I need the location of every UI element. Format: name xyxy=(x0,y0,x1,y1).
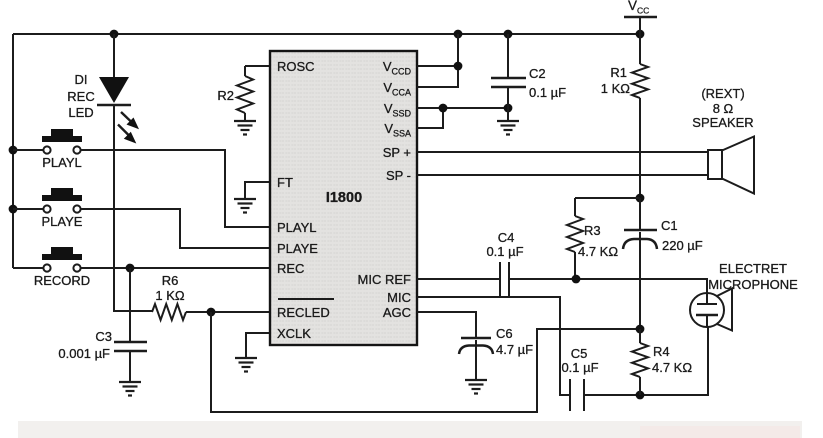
ground R2 xyxy=(234,121,256,135)
speaker SPK1 xyxy=(708,137,754,194)
svg-text:REC: REC xyxy=(67,89,94,104)
resistor R3 xyxy=(567,198,583,279)
node junction VCCD/VCCA xyxy=(454,62,463,71)
svg-text:4.7 KΩ: 4.7 KΩ xyxy=(652,360,692,375)
svg-text:FT: FT xyxy=(277,175,293,190)
svg-text:RECLED: RECLED xyxy=(277,305,330,320)
node junction VSSA/VSSD xyxy=(439,104,448,113)
resistor R6 xyxy=(152,304,186,320)
ground FT xyxy=(234,199,256,213)
resistor R4 xyxy=(632,329,648,395)
svg-text:(REXT): (REXT) xyxy=(701,86,744,101)
node junction top-rail Vcc xyxy=(636,30,645,39)
svg-text:PLAYL: PLAYL xyxy=(42,155,82,170)
svg-text:AGC: AGC xyxy=(383,305,411,320)
switch PLAYE xyxy=(13,188,82,213)
capacitor C5 xyxy=(570,379,584,411)
svg-text:8 Ω: 8 Ω xyxy=(713,101,734,116)
ground C6 xyxy=(465,380,487,394)
svg-text:1 KΩ: 1 KΩ xyxy=(601,81,631,96)
svg-text:SP +: SP + xyxy=(383,145,411,160)
wire top rail xyxy=(13,33,640,35)
svg-text:ELECTRET: ELECTRET xyxy=(719,261,787,276)
LED emission arrow 2 xyxy=(118,125,136,144)
svg-text:SP -: SP - xyxy=(386,168,411,183)
wire XCLK to ground xyxy=(246,333,270,358)
wire PLAYE to pin xyxy=(81,209,270,248)
svg-text:0.1 µF: 0.1 µF xyxy=(486,244,523,259)
svg-text:R1: R1 xyxy=(610,65,627,80)
bottom scan strip xyxy=(18,421,802,438)
node junction left-rail PLAYL xyxy=(9,146,18,155)
svg-text:1 KΩ: 1 KΩ xyxy=(155,288,185,303)
wire FT to ground xyxy=(245,182,270,199)
wire AGC xyxy=(417,312,476,338)
Vcc symbol xyxy=(624,0,657,34)
wire RECORD to REC pin xyxy=(81,267,270,269)
capacitor C1 polarized xyxy=(623,198,657,329)
wire PLAYL to pin xyxy=(81,150,270,227)
capacitor C4 xyxy=(500,262,509,296)
svg-text:I1800: I1800 xyxy=(326,190,362,206)
svg-text:ROSC: ROSC xyxy=(277,59,315,74)
svg-text:MICROPHONE: MICROPHONE xyxy=(708,277,798,292)
wire C5 to mic bottom xyxy=(584,327,708,395)
capacitor C6 polarized xyxy=(459,338,493,380)
LED D1 xyxy=(97,77,131,105)
microphone MIC1 electret xyxy=(690,289,732,331)
wire VCCD xyxy=(417,65,458,67)
svg-text:C5: C5 xyxy=(571,346,588,361)
node junction R4 bottom xyxy=(636,391,645,400)
wire MIC xyxy=(417,297,570,395)
node junction top-rail C2 xyxy=(504,30,513,39)
svg-text:SPEAKER: SPEAKER xyxy=(692,115,753,130)
svg-text:RECORD: RECORD xyxy=(34,273,90,288)
svg-text:VCC: VCC xyxy=(628,0,649,16)
wire left rail xyxy=(12,34,14,268)
wire RECLED feedback bottom loop xyxy=(211,312,640,412)
node junction VSSD/C2 xyxy=(504,104,513,113)
resistor R2 xyxy=(237,66,270,121)
svg-text:DI: DI xyxy=(75,72,88,87)
ground XCLK xyxy=(235,358,257,372)
svg-text:C2: C2 xyxy=(529,66,546,81)
svg-text:R6: R6 xyxy=(162,273,179,288)
wire VSSD xyxy=(417,107,508,109)
node junction top-rail LED xyxy=(110,30,119,39)
svg-text:C6: C6 xyxy=(496,326,513,341)
svg-text:R4: R4 xyxy=(653,344,670,359)
wire MIC REF xyxy=(417,279,707,293)
node junction C1/R4/RECLED xyxy=(636,325,645,334)
ground C3 xyxy=(119,382,141,396)
wire VSSA xyxy=(417,108,443,128)
svg-text:PLAYE: PLAYE xyxy=(42,214,83,229)
ground C2 xyxy=(497,121,519,135)
switch PLAYL xyxy=(13,129,82,154)
node junction RECORD C3 xyxy=(126,264,135,273)
svg-text:XCLK: XCLK xyxy=(277,326,311,341)
svg-text:R2: R2 xyxy=(217,88,234,103)
svg-text:LED: LED xyxy=(68,105,93,120)
node junction top-rail Vcc column xyxy=(454,30,463,39)
svg-text:REC: REC xyxy=(277,261,304,276)
wire SP- xyxy=(417,174,708,176)
node junction left-rail PLAYE xyxy=(9,205,18,214)
wire SP+ xyxy=(417,151,708,153)
wire R6 to RECLED pin xyxy=(186,311,270,313)
node junction MICREF/R3 xyxy=(572,275,581,284)
svg-text:R3: R3 xyxy=(584,223,601,238)
svg-text:C1: C1 xyxy=(661,218,678,233)
svg-text:MIC REF: MIC REF xyxy=(358,272,412,287)
pin RECLED xyxy=(277,299,334,320)
node junction RECLED xyxy=(207,308,216,317)
op-amp U1 I1800 IC body xyxy=(270,51,417,345)
svg-text:PLAYE: PLAYE xyxy=(277,241,318,256)
node junction R1/R3/C1 xyxy=(636,194,645,203)
resistor R1 xyxy=(632,34,648,198)
svg-text:C3: C3 xyxy=(95,329,112,344)
svg-text:0.001 µF: 0.001 µF xyxy=(58,346,110,361)
svg-text:PLAYL: PLAYL xyxy=(277,220,317,235)
svg-text:0.1 µF: 0.1 µF xyxy=(561,360,598,375)
svg-text:220 µF: 220 µF xyxy=(662,238,703,253)
svg-text:4.7 µF: 4.7 µF xyxy=(496,342,533,357)
switch RECORD xyxy=(13,247,82,272)
capacitor C3 xyxy=(114,268,147,382)
LED emission arrow 1 xyxy=(121,112,139,129)
wire LED column xyxy=(114,34,152,311)
svg-text:C4: C4 xyxy=(498,230,515,245)
capacitor C2 xyxy=(491,34,526,121)
svg-text:0.1 µF: 0.1 µF xyxy=(529,85,566,100)
wire VCCA xyxy=(417,34,458,87)
wire R3 top xyxy=(575,197,640,199)
svg-text:4.7 KΩ: 4.7 KΩ xyxy=(578,244,618,259)
svg-text:MIC: MIC xyxy=(387,290,411,305)
